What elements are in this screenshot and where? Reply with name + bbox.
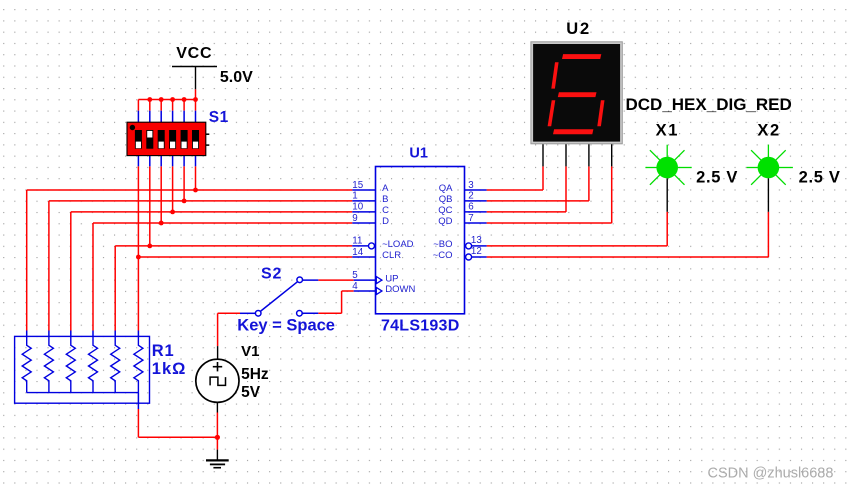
svg-text:1: 1 <box>352 191 357 202</box>
svg-text:QB: QB <box>439 194 453 205</box>
svg-text:2.5 V: 2.5 V <box>799 169 841 187</box>
svg-text:6: 6 <box>468 202 474 213</box>
svg-text:CLR: CLR <box>382 250 401 261</box>
svg-text:9: 9 <box>352 213 357 224</box>
svg-text:~LOAD: ~LOAD <box>382 239 414 250</box>
svg-text:DCD_HEX_DIG_RED: DCD_HEX_DIG_RED <box>626 95 792 114</box>
svg-text:7: 7 <box>468 213 473 224</box>
svg-text:~CO: ~CO <box>433 250 453 261</box>
svg-text:13: 13 <box>471 235 482 246</box>
svg-text:74LS193D: 74LS193D <box>381 318 460 335</box>
svg-text:QD: QD <box>438 216 452 227</box>
svg-text:D: D <box>382 216 389 227</box>
svg-text:14: 14 <box>352 247 363 258</box>
svg-text:S2: S2 <box>261 266 282 283</box>
svg-text:Key = Space: Key = Space <box>237 317 335 335</box>
svg-text:11: 11 <box>352 236 362 247</box>
svg-text:QC: QC <box>438 205 452 216</box>
svg-text:QA: QA <box>439 183 453 194</box>
svg-text:R1: R1 <box>152 342 175 360</box>
svg-text:X1: X1 <box>656 121 679 139</box>
svg-text:5Hz: 5Hz <box>241 366 269 383</box>
svg-text:X2: X2 <box>757 121 780 139</box>
svg-text:5.0V: 5.0V <box>220 69 253 86</box>
svg-text:2: 2 <box>468 191 473 202</box>
svg-text:U1: U1 <box>409 145 428 161</box>
svg-text:5: 5 <box>352 270 358 281</box>
svg-text:CSDN @zhusl6688: CSDN @zhusl6688 <box>708 466 834 482</box>
svg-text:DOWN: DOWN <box>385 284 415 295</box>
svg-text:3: 3 <box>468 180 474 191</box>
svg-text:1kΩ: 1kΩ <box>152 360 187 378</box>
svg-text:2.5 V: 2.5 V <box>696 169 738 187</box>
svg-text:UP: UP <box>385 273 398 284</box>
svg-text:S1: S1 <box>209 109 229 126</box>
svg-text:5V: 5V <box>241 384 261 401</box>
svg-text:4: 4 <box>352 281 358 292</box>
svg-text:15: 15 <box>352 180 363 191</box>
svg-text:A: A <box>382 183 389 194</box>
svg-text:~BO: ~BO <box>433 239 452 250</box>
svg-text:12: 12 <box>471 246 482 257</box>
svg-text:C: C <box>382 205 389 216</box>
svg-text:B: B <box>382 194 388 205</box>
svg-text:10: 10 <box>352 202 363 213</box>
svg-text:VCC: VCC <box>176 45 212 62</box>
svg-text:U2: U2 <box>566 20 591 38</box>
svg-text:V1: V1 <box>241 343 259 360</box>
